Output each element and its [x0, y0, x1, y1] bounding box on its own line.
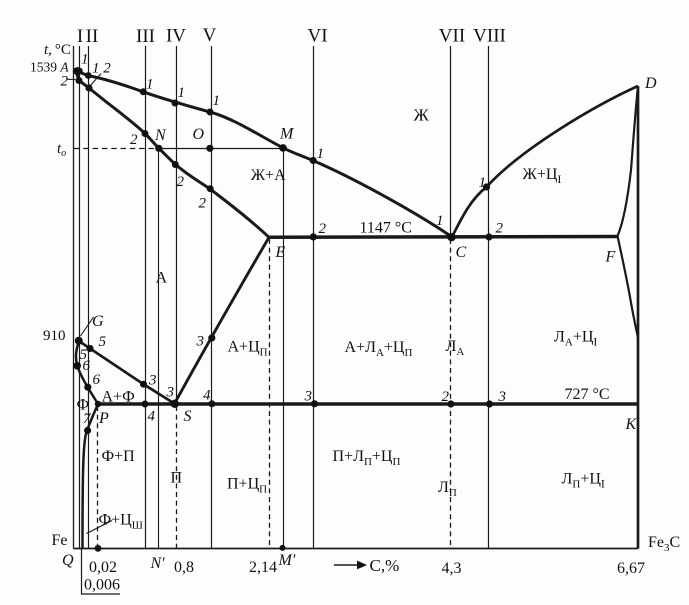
svg-text:O: O [193, 126, 205, 143]
line P-Q [83, 404, 99, 549]
point S [171, 400, 179, 408]
svg-text:1: 1 [146, 77, 154, 93]
svg-text:VI: VI [307, 26, 327, 47]
svg-text:1 2: 1 2 [92, 61, 111, 77]
svg-text:2,14: 2,14 [249, 559, 277, 576]
svg-text:1: 1 [178, 85, 186, 101]
point 2 of alloy III [142, 130, 149, 137]
alloy line VI [313, 46, 315, 549]
svg-text:Ж: Ж [414, 106, 430, 125]
point 3 of alloy V [208, 334, 215, 341]
svg-text:0,006: 0,006 [84, 577, 120, 594]
svg-text:IV: IV [166, 26, 186, 47]
point 3 of alloy III [140, 381, 147, 388]
svg-text:VII: VII [439, 26, 465, 47]
point 3 of alloy VI on 727 line [311, 400, 318, 407]
callout line for labels 1 2 on line II [90, 74, 101, 87]
svg-text:I: I [77, 26, 83, 47]
svg-text:910: 910 [43, 328, 66, 344]
svg-text:1: 1 [479, 175, 487, 191]
svg-text:2: 2 [61, 74, 69, 90]
point N [155, 145, 162, 152]
point 2 of alloy II [85, 84, 92, 91]
svg-text:3: 3 [166, 385, 175, 401]
vertical M-M' [283, 148, 285, 548]
point G [75, 337, 83, 345]
0,006 bracket [82, 549, 121, 595]
svg-text:А: А [156, 270, 168, 287]
svg-text:3: 3 [196, 334, 205, 350]
alloy line IV solid upper part [176, 46, 178, 404]
point 2 of alloy VI on 1147 line [310, 233, 317, 240]
svg-text:2: 2 [319, 221, 327, 237]
svg-text:0,02: 0,02 [89, 559, 117, 576]
alloy line II [88, 46, 90, 549]
eutectic 1147C line E-C-F [269, 235, 618, 239]
svg-text:4: 4 [148, 409, 156, 425]
point A blob [73, 67, 83, 75]
svg-text:N: N [154, 127, 167, 144]
point 1 of alloy V [207, 109, 214, 116]
svg-text:1: 1 [436, 213, 444, 229]
arrowhead of C percent arrow [357, 561, 367, 570]
svg-text:2: 2 [199, 196, 207, 212]
svg-text:G: G [92, 313, 104, 330]
point 2 of alloy I [76, 77, 83, 84]
point 2 of alloy VIII on 1147 line [485, 233, 492, 240]
alloy line VIII [488, 46, 490, 549]
svg-text:S: S [184, 408, 192, 425]
svg-text:1: 1 [317, 146, 325, 162]
svg-text:1539 A: 1539 A [30, 60, 69, 75]
line G-S [79, 341, 175, 404]
svg-text:III: III [136, 26, 155, 47]
point P [95, 401, 101, 407]
dot at bottom of P dashed line [95, 545, 102, 552]
svg-text:6,67: 6,67 [617, 560, 645, 577]
point 1 of alloy VI [310, 157, 317, 164]
alloy line IV dashed lower part (0,8) [176, 406, 178, 549]
point 1 of alloy III [140, 88, 147, 95]
svg-text:C: C [456, 244, 467, 261]
cementite lens D-F [618, 86, 639, 338]
point 2 of alloy V [207, 185, 214, 192]
svg-text:0,8: 0,8 [174, 559, 194, 576]
svg-text:Ж+А: Ж+А [251, 167, 286, 184]
svg-text:4: 4 [203, 388, 211, 404]
svg-text:6: 6 [83, 358, 91, 374]
dashed part of t_o line [74, 148, 156, 150]
vertical 6.67% Fe3C line D-K-L [637, 86, 640, 549]
line G-P [76, 341, 98, 404]
callout dash for point 2 near A [68, 78, 76, 80]
eutectoid 727C line P-S-K [98, 402, 639, 406]
point 2 of alloy VII on 727 line [447, 400, 454, 407]
vertical N-N' [158, 148, 160, 548]
alloy line VII solid upper part [450, 46, 452, 237]
liquidus A-C [75, 71, 452, 238]
svg-text:А+Ф: А+Ф [102, 389, 135, 406]
alloy line V [211, 46, 213, 549]
liquidus C-D [452, 86, 638, 237]
svg-text:D: D [644, 75, 657, 92]
svg-text:2: 2 [496, 221, 504, 237]
svg-text:5: 5 [99, 334, 107, 350]
point 5 of alloy II [86, 345, 93, 352]
svg-text:3: 3 [148, 373, 157, 389]
point O [206, 145, 213, 152]
svg-text:3: 3 [304, 389, 313, 405]
callout line G label [81, 317, 94, 336]
svg-text:C,%: C,% [370, 556, 400, 575]
svg-text:Q: Q [62, 552, 74, 569]
svg-text:4,3: 4,3 [442, 560, 462, 577]
svg-text:t, °C: t, °C [44, 42, 71, 58]
point 5 of alloy I [73, 362, 81, 370]
callout line F+C_III label [87, 521, 113, 534]
svg-text:K: K [625, 416, 638, 433]
point 1 of alloy IV [172, 100, 179, 107]
svg-text:2: 2 [177, 174, 185, 190]
point 2 of alloy IV [172, 161, 179, 168]
dot at bottom of M-M' line [280, 545, 286, 551]
dashed 4,3 vertical below C [450, 239, 452, 549]
svg-text:II: II [86, 26, 99, 47]
C percent arrow [334, 564, 359, 566]
point 4 of alloy III [142, 401, 149, 408]
svg-text:E: E [275, 244, 286, 261]
svg-text:Fe: Fe [52, 532, 68, 549]
point M [279, 144, 287, 152]
svg-text:VIII: VIII [473, 26, 506, 47]
svg-text:N′: N′ [150, 555, 166, 572]
point 7 of alloy II [84, 427, 91, 434]
svg-text:2: 2 [130, 132, 138, 148]
svg-text:M′: M′ [278, 552, 296, 569]
solidus A-E [76, 72, 269, 238]
point 1 of alloy VIII [483, 183, 490, 190]
svg-text:1: 1 [81, 52, 89, 68]
svg-text:Ф+П: Ф+П [102, 448, 136, 465]
svg-text:P: P [98, 410, 109, 427]
dashed 2,14 vertical below E [269, 239, 271, 549]
line S-E [175, 237, 270, 403]
svg-text:6: 6 [93, 372, 101, 388]
solid part of t_o line N-O-M [156, 148, 284, 150]
point 1 of alloy II [85, 72, 92, 79]
svg-text:1: 1 [213, 93, 221, 109]
svg-text:1147 °C: 1147 °C [360, 220, 412, 237]
svg-text:3: 3 [498, 389, 507, 405]
temperature axis [73, 46, 75, 549]
point 6 of alloy II [84, 384, 91, 391]
point 4 of alloy V [208, 400, 215, 407]
point C eutectic [447, 233, 455, 241]
svg-text:F: F [605, 249, 616, 266]
alloy line I [79, 46, 81, 549]
svg-text:2: 2 [442, 389, 450, 405]
svg-text:V: V [203, 25, 217, 46]
svg-text:П: П [171, 470, 183, 487]
dashed 0,02 vertical below P [97, 406, 99, 549]
svg-text:M: M [279, 126, 295, 143]
bottom axis [74, 548, 639, 550]
alloy line III [145, 46, 147, 549]
svg-text:727 °C: 727 °C [565, 386, 610, 403]
point 3 of alloy VIII on 727 line [486, 400, 493, 407]
